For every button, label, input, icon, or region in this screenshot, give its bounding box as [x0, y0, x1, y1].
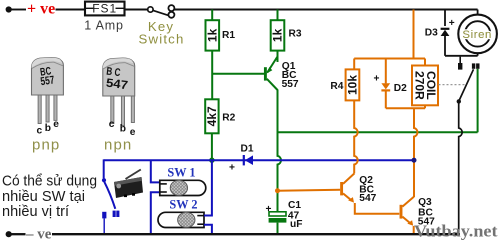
extra SW terminal B	[113, 211, 120, 217]
svg-text:– ve: – ve	[25, 226, 52, 241]
microswitch photo	[114, 170, 143, 199]
svg-text:+: +	[449, 18, 455, 29]
wire coil bottom horizontal	[386, 107, 425, 109]
mercury switch SW1	[160, 180, 206, 195]
wire green branch to relay	[278, 131, 478, 133]
wire +ve rail main	[175, 9, 478, 11]
relay contact terminal B	[472, 63, 475, 68]
wire D3 branch top	[444, 10, 446, 27]
wire blue net horizontal	[104, 159, 414, 161]
wire R4 top lead	[353, 59, 355, 70]
label c b e (npn)	[109, 119, 136, 138]
svg-text:+ ve: + ve	[27, 1, 55, 18]
svg-text:nhiều vị trí: nhiều vị trí	[2, 203, 70, 220]
transistor package BC547	[103, 58, 135, 126]
wire coil to Q3 collector	[414, 108, 417, 197]
transistor Q2	[342, 173, 355, 202]
wire Q3 emitter to -ve rail	[413, 226, 415, 234]
svg-text:D1: D1	[241, 143, 254, 154]
wire R2 bottom lead	[211, 133, 213, 160]
transistor package BC557	[32, 58, 64, 124]
svg-text:COIL: COIL	[424, 71, 438, 100]
svg-text:1 Amp: 1 Amp	[84, 18, 123, 32]
svg-text:547: 547	[359, 193, 376, 204]
wire siren top stub	[477, 10, 479, 15]
wire siren bottom stub	[477, 53, 479, 56]
wire R3 top lead	[277, 10, 279, 21]
wire Q2 emitter to Q3 base	[355, 203, 400, 214]
diode D3	[441, 29, 450, 56]
wire Q1 collector down	[278, 90, 281, 212]
wire orange top horizontal	[354, 58, 425, 60]
key switch SW	[148, 5, 175, 18]
svg-text:+: +	[374, 73, 380, 84]
svg-text:c: c	[37, 126, 43, 137]
label Q1 BC 557	[282, 61, 299, 90]
wire -ve rail main	[52, 233, 460, 235]
svg-text:Vutbay.net: Vutbay.net	[414, 221, 498, 240]
wire SW1 left vertical top	[151, 160, 160, 182]
svg-text:R2: R2	[222, 112, 235, 123]
resistor R1	[205, 20, 219, 50]
svg-text:4k7: 4k7	[205, 106, 219, 126]
svg-text:Có thể sử dụng: Có thể sử dụng	[2, 172, 97, 189]
svg-text:e: e	[53, 119, 59, 130]
svg-text:D2: D2	[394, 83, 407, 94]
svg-text:547: 547	[105, 76, 129, 93]
wire +ve rail to fuse	[56, 9, 86, 11]
wire SW2 right vertical bottom	[204, 225, 212, 234]
svg-text:1k: 1k	[271, 28, 285, 42]
svg-text:10k: 10k	[346, 75, 360, 95]
wire Q2 base	[278, 190, 341, 191]
capacitor C1	[266, 204, 287, 235]
wire relay contact green vertical	[477, 69, 479, 133]
relay contact terminal C	[476, 63, 479, 68]
svg-text:Switch: Switch	[138, 32, 184, 47]
svg-text:R3: R3	[289, 28, 302, 39]
wire terminal A to -ve rail	[103, 218, 105, 233]
siren	[458, 15, 497, 54]
wire R1 top lead	[211, 10, 213, 21]
mechanical link dashed	[439, 84, 467, 86]
wire R3 bottom to Q1 emitter	[277, 51, 279, 62]
node junction C1 / Q2 base	[275, 188, 280, 193]
wire fuse to key switch	[125, 9, 148, 11]
wire blue left drop to lever switch	[103, 159, 105, 178]
wire -ve rail left	[11, 233, 26, 235]
node +ve terminal dot	[6, 6, 12, 12]
svg-text:c: c	[109, 119, 115, 130]
resistor R4	[346, 69, 360, 100]
transistor Q3	[401, 197, 414, 226]
fuse FS1	[85, 1, 125, 15]
node lever switch pivot	[102, 178, 106, 182]
diode D2	[381, 59, 390, 109]
wire siren bottom horizontal	[445, 55, 478, 57]
label Q2 BC 547	[359, 175, 376, 204]
note text vietnamese	[2, 172, 97, 220]
svg-text:C1: C1	[288, 200, 301, 211]
svg-text:SW 1: SW 1	[167, 166, 195, 180]
svg-text:npn: npn	[104, 136, 132, 153]
svg-text:557: 557	[40, 74, 56, 88]
svg-text:uF: uF	[290, 219, 302, 230]
node junction blue net / Q3 collector	[412, 158, 417, 163]
resistor R3	[271, 20, 285, 50]
node relay lever pivot	[457, 99, 461, 103]
svg-text:b: b	[45, 123, 51, 134]
extra SW lever	[104, 182, 115, 209]
svg-text:b: b	[120, 123, 126, 134]
svg-text:557: 557	[282, 79, 299, 90]
svg-text:R4: R4	[330, 81, 343, 92]
relay armature lever	[459, 69, 474, 101]
label c b e (pnp)	[37, 119, 60, 137]
node junction R2 / blue net	[209, 158, 214, 163]
relay contact terminal A	[458, 57, 462, 70]
wire orange feed from +ve rail	[413, 10, 415, 59]
svg-text:Siren: Siren	[462, 29, 492, 41]
svg-text:SW 2: SW 2	[169, 198, 197, 212]
svg-text:D3: D3	[425, 28, 438, 39]
wire R4 bottom to Q2 collector	[354, 100, 357, 173]
extra SW terminal A	[102, 212, 106, 219]
node -ve terminal dot	[6, 231, 12, 237]
mercury switch SW2	[158, 212, 204, 227]
svg-text:pnp: pnp	[32, 136, 60, 153]
relay coil 270R	[412, 59, 438, 109]
diode D1	[244, 155, 253, 165]
transistor Q1	[265, 57, 277, 91]
svg-text:R1: R1	[222, 30, 235, 41]
resistor R2	[205, 99, 219, 133]
wire SW1 left vertical bottom	[151, 192, 160, 233]
wire R1 bottom to R2 top	[211, 51, 213, 100]
label C1 47 uF	[288, 200, 303, 230]
wire relay to -ve rail	[459, 101, 462, 234]
svg-text:+: +	[229, 162, 235, 173]
label Q3 BC 547	[418, 197, 435, 228]
svg-text:1k: 1k	[205, 28, 219, 42]
wire SW2 right vertical top	[204, 160, 212, 215]
wire +ve rail left	[11, 9, 27, 11]
wire Q1 base	[212, 73, 264, 75]
svg-text:FS1: FS1	[92, 1, 117, 15]
